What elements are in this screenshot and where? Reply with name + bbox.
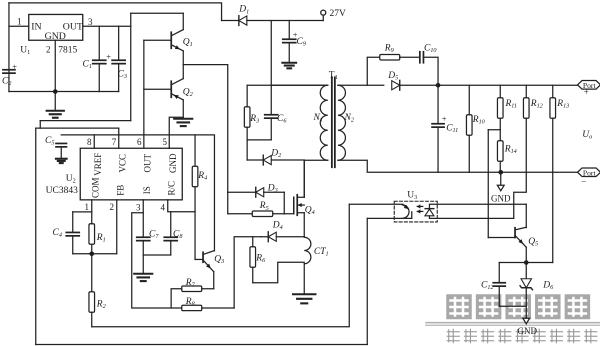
wire R6 bottom [252, 267, 254, 283]
light arrows [417, 205, 423, 207]
wire U1 pin2 down [54, 40, 56, 110]
wire R10 bottom [468, 135, 470, 172]
wire Q5 emitter down [525, 247, 527, 262]
svg-text:3: 3 [88, 17, 93, 27]
transistor Q2 [170, 81, 172, 97]
svg-text:GND: GND [518, 326, 538, 336]
resistor R11 [497, 98, 503, 119]
resistor R9 [380, 55, 400, 60]
svg-text:VREF: VREF [93, 153, 103, 176]
opto collector arrow [403, 205, 408, 209]
wire R13 top [552, 85, 554, 98]
capacitor C1 [93, 59, 106, 61]
wire CT1 bottom [303, 264, 305, 294]
ground shared Q2 and pin5 [174, 118, 192, 120]
wire R12 to LED jog [514, 118, 527, 218]
wire R9 to C10 [400, 56, 420, 58]
wire R1 bottom [91, 244, 93, 254]
wire gate lead [284, 213, 294, 215]
wire VREF rail [61, 135, 214, 251]
svg-text:8: 8 [87, 137, 92, 147]
wire zener cap bottom link [499, 305, 526, 307]
wire R1 top [91, 212, 93, 224]
wire R1 node to R2 [91, 254, 93, 292]
opto transistor dome [402, 205, 409, 219]
wire R6 link to CT1 tap [253, 262, 305, 283]
diode D4 [267, 232, 269, 242]
svg-text:6: 6 [137, 137, 142, 147]
svg-text:+: + [584, 87, 589, 97]
diode D2 [262, 155, 264, 165]
wire VCC bottom rail [36, 343, 368, 345]
wire C1 bottom [98, 64, 100, 92]
capacitor C8 [164, 236, 177, 238]
ground below C9 [282, 62, 296, 64]
opto emitter bar [411, 212, 413, 219]
svg-text:4: 4 [161, 203, 166, 213]
wire R4 bottom to Q3 base [194, 187, 196, 260]
LED of U3 [425, 208, 434, 210]
svg-text:7815: 7815 [58, 45, 77, 55]
capacitor C11 [432, 123, 444, 125]
capacitor C10 [419, 52, 421, 63]
wire Q3 base [195, 258, 203, 260]
wire C9 top [288, 21, 290, 40]
wire C8 top [170, 212, 172, 238]
ground arrow GND2 [523, 318, 530, 324]
wire R11 to R14 [499, 118, 501, 141]
svg-text:FB: FB [115, 185, 125, 196]
wire D3 to corner [264, 191, 285, 193]
wire C3 bottom [118, 64, 120, 92]
wire R11 top [499, 85, 501, 98]
wire N2 bottom to output rail [338, 160, 578, 172]
capacitor C12 [493, 282, 505, 284]
wire to D1 cathode [222, 20, 239, 22]
wire VCC horizontal y120 [40, 120, 131, 122]
wire R6 top [252, 237, 254, 247]
ground below CT1 [293, 293, 315, 295]
wire VCC riser x130 [130, 13, 132, 120]
svg-text:IN: IN [31, 21, 41, 32]
wire C8 bottom [170, 241, 172, 255]
svg-text:IS: IS [142, 186, 152, 194]
wire C4 top [72, 212, 74, 233]
wire R7 right [202, 288, 214, 290]
wire R5 right [273, 213, 285, 215]
wire pin8 stub [93, 135, 95, 148]
svg-text:GND: GND [491, 193, 511, 203]
wire D5 to junction [400, 84, 578, 86]
resistor R7 [182, 286, 202, 291]
wire Q3 emitter riser [213, 272, 215, 289]
resistor R14 [497, 141, 503, 162]
wire VCC left drop x35 [35, 128, 37, 344]
wire pin2 stub [116, 200, 118, 254]
chip U2 box [80, 148, 182, 200]
svg-text:3: 3 [136, 203, 141, 213]
svg-text:+: + [106, 51, 111, 61]
ground below C5 [56, 158, 67, 160]
wire pin4 line [168, 200, 195, 212]
svg-text:+: + [442, 113, 447, 123]
wire pin5 stub [169, 117, 183, 148]
wire C12 bottom [498, 286, 500, 306]
capacitor C2 [3, 69, 15, 71]
watermark logo (under circuit) [425, 294, 600, 343]
wire Q2 base [144, 88, 171, 90]
wire snubber bottom link [247, 139, 271, 141]
wire Q1 collector [182, 13, 184, 29]
resistor R1 [89, 224, 95, 245]
winding N2 [338, 85, 346, 160]
svg-text:VCC: VCC [117, 154, 127, 173]
capacitor C6 [265, 114, 278, 116]
capacitor C9 [283, 38, 296, 40]
wire base bus x143 [143, 40, 145, 148]
winding N1 [320, 85, 328, 160]
junction U1 ground [53, 89, 58, 94]
wire U1 ground link [9, 91, 119, 93]
wire 27V rail down to C6 node [270, 21, 272, 115]
ground below C7 [134, 273, 152, 275]
regulator U1 box [29, 14, 83, 40]
opto collector wire [349, 203, 403, 205]
ground arrow GND1 [497, 185, 504, 191]
wire C11 top [437, 85, 439, 124]
wire pin3 stub down [142, 200, 144, 237]
opto emitter wire [367, 217, 412, 219]
wire C11 bottom [437, 127, 439, 172]
svg-text:−: − [581, 176, 586, 186]
diode D1 [238, 16, 240, 26]
wire R5 left [228, 213, 253, 215]
resistor R10 [466, 115, 472, 136]
wire D4 gap [261, 236, 268, 238]
wire C5 bottom [60, 147, 62, 158]
svg-text:2: 2 [46, 44, 51, 54]
svg-text:UC3843: UC3843 [46, 186, 78, 196]
resistor R5 [252, 211, 273, 216]
wire D2 left [247, 159, 263, 161]
wire C1 top [98, 26, 100, 60]
wire R13 down to emitter node [552, 118, 554, 262]
wire pin3 to R8 route [132, 213, 182, 308]
wire C7 bottom [142, 241, 144, 273]
svg-text:OUT: OUT [142, 154, 152, 173]
wire D4 to CT1 node [276, 236, 304, 238]
ground below U1 [47, 110, 64, 112]
wire top input rail [9, 3, 222, 21]
optocoupler U3 box [394, 201, 437, 222]
wire R3 top [246, 85, 248, 107]
resistor R13 [550, 98, 556, 119]
svg-text:7: 7 [112, 137, 117, 147]
resistor R3 [244, 107, 250, 128]
wire emitter node to gate drive [183, 65, 228, 214]
resistor R8 [182, 305, 202, 310]
wire D6 top [525, 263, 527, 279]
wire C9 bottom [288, 43, 290, 62]
svg-text:+: + [12, 61, 17, 71]
junction Q5 emitter [524, 260, 529, 265]
terminal 27V [322, 15, 324, 20]
wire U3 emitter drop [366, 218, 368, 344]
wire R14 bottom [499, 161, 501, 172]
wire C4 R1 top link [73, 211, 92, 213]
wire R3 bottom [246, 127, 248, 140]
wire R11 R14 tap [488, 129, 500, 131]
resistor R2 [89, 292, 95, 313]
wire R2 bottom [91, 312, 93, 327]
wire C10 to junction [423, 57, 438, 85]
winding CT1 [304, 237, 311, 264]
wire Q4 drain [303, 160, 305, 197]
wire R7 left [171, 289, 182, 308]
wire Q1 base [144, 39, 171, 41]
port plus tag [578, 81, 600, 90]
resistor R6 [250, 247, 256, 268]
wire gnd2 stub [525, 306, 527, 318]
transistor Q1 [170, 32, 172, 48]
wire LED cathode [429, 204, 526, 208]
svg-text:1: 1 [85, 202, 90, 212]
wire N1 bottom [304, 160, 328, 197]
wire R3 to D2 [246, 140, 248, 160]
capacitor C3 [112, 59, 125, 61]
wire LED anode [429, 216, 513, 219]
wire snubber top y85 [247, 84, 327, 86]
junction D5 C10 C11 [436, 83, 441, 88]
wire D2 right to drain node [271, 159, 304, 161]
wire R4 top [194, 135, 196, 166]
capacitor C4 [66, 231, 79, 233]
junction R14 output rail [498, 170, 503, 175]
resistor R4 [192, 166, 198, 187]
diode D5 [399, 80, 401, 90]
port minus tag [578, 168, 600, 177]
wire Q2 collector [182, 100, 184, 117]
wire C4 R1 pin2 bottom link [73, 253, 117, 255]
wire R10 top [468, 85, 470, 115]
wire VCC jog [39, 121, 41, 128]
wire Q5 base [488, 237, 515, 239]
wire emitter node link [499, 262, 553, 264]
wire left rail vertical [8, 3, 10, 92]
wire VCC horizontal y128 [36, 127, 119, 129]
mosfet Q4 [293, 197, 295, 214]
wire top link to Q1 collector [131, 12, 184, 14]
wire N2 top to D5 [338, 84, 384, 86]
svg-text:1: 1 [17, 16, 22, 26]
svg-text:5: 5 [163, 137, 168, 147]
zener D6 [521, 279, 531, 288]
wire C6 bottom [270, 118, 272, 140]
wire D6 bottom [525, 288, 527, 307]
wire R12 top [525, 85, 527, 98]
capacitor C7 [137, 236, 150, 238]
wire gnd arrow stub [500, 172, 502, 185]
wire C4 bottom [72, 236, 74, 254]
wire Q5 base drop [487, 130, 489, 238]
wire Q1 emitter to node [182, 51, 184, 65]
wire pin1 stub [91, 200, 93, 212]
svg-text:GND: GND [168, 153, 178, 173]
svg-text:2: 2 [110, 202, 115, 212]
wire D4 branch [234, 237, 261, 308]
junction R1 bottom [89, 251, 94, 256]
diode D3 [255, 187, 257, 197]
wire C3 top [118, 26, 120, 60]
transistor Q3 [202, 252, 204, 262]
svg-text:27V: 27V [330, 9, 347, 19]
wire C7 C8 link [143, 254, 171, 256]
capacitor C5 [56, 142, 66, 144]
transformer T1 core [331, 77, 333, 167]
wire D3 branch [228, 191, 256, 193]
wire U1 out [83, 25, 131, 27]
wire U1 input from left rail [9, 25, 29, 27]
svg-text:R/C: R/C [166, 181, 176, 196]
wire snubber R9 riser [367, 57, 380, 85]
wire D1 anode to 27V terminal [247, 20, 323, 22]
wire pin7 stub [118, 128, 120, 148]
wire C12 drop [498, 263, 500, 283]
wire feedback rail [92, 204, 350, 327]
wire R8 right [202, 307, 234, 309]
svg-text:COM: COM [90, 177, 100, 198]
wire Q2 emitter [182, 65, 184, 79]
resistor R12 [523, 98, 529, 119]
wire Q4 source down [303, 213, 305, 237]
transistor Q5 [514, 228, 516, 238]
wire D3 corner down [283, 192, 285, 214]
wire N1 top [271, 84, 328, 86]
wire LED cathode drop to Q5 [525, 204, 527, 227]
